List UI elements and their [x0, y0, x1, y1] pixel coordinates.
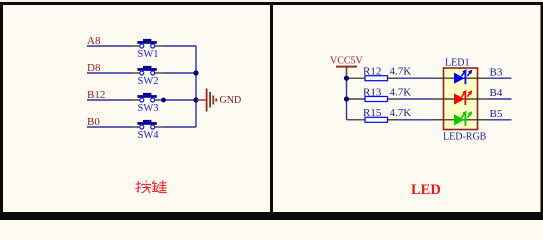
frame bottom border — [0, 212, 543, 220]
svg-text:B5: B5 — [490, 108, 503, 120]
svg-text:B0: B0 — [87, 116, 100, 128]
wire through LED row3 — [444, 119, 477, 121]
wire R12 to LED — [388, 77, 444, 79]
svg-text:4.7K: 4.7K — [390, 66, 412, 78]
svg-text:LED1: LED1 — [445, 57, 469, 68]
switch SW4 — [137, 120, 159, 141]
wire B0 to SW4 — [87, 126, 140, 128]
ground GND — [196, 89, 241, 112]
svg-text:A8: A8 — [87, 35, 101, 47]
svg-text:LED-RGB: LED-RGB — [443, 131, 487, 142]
panel divider — [270, 2, 273, 212]
junction bus row1 — [344, 76, 349, 81]
LED green element — [454, 111, 472, 126]
wire SW1 to bus — [155, 45, 196, 47]
wire R15 to LED — [388, 119, 444, 121]
wire vcc bus vertical — [346, 78, 348, 120]
resistor R13 — [347, 86, 411, 101]
LED blue element — [454, 69, 472, 84]
frame left border — [0, 2, 3, 220]
switch SW3 — [137, 93, 158, 114]
switch SW1 — [137, 39, 158, 60]
svg-text:SW1: SW1 — [138, 49, 159, 60]
wire through LED row1 — [444, 77, 477, 79]
svg-text:SW4: SW4 — [138, 130, 160, 141]
junction bus row3 — [193, 97, 198, 102]
svg-text:4.7K: 4.7K — [390, 86, 412, 98]
title right panel LED — [411, 182, 441, 198]
svg-text:B3: B3 — [490, 66, 503, 78]
svg-text:GND: GND — [220, 95, 242, 106]
svg-text:LED: LED — [411, 182, 441, 198]
power VCC5V — [330, 56, 364, 79]
node B3 — [490, 66, 503, 78]
svg-text:4.7K: 4.7K — [390, 107, 412, 119]
LED module LED1 body — [443, 57, 487, 142]
svg-text:B4: B4 — [490, 87, 503, 99]
wire SW3 to bus — [155, 99, 196, 101]
wire through LED row2 — [444, 98, 477, 100]
LED red element — [454, 90, 472, 105]
svg-text:VCC5V: VCC5V — [330, 56, 364, 67]
svg-text:SW2: SW2 — [138, 76, 159, 87]
wire SW2 to bus — [155, 72, 196, 74]
node B12 — [87, 89, 105, 101]
node B5 — [490, 108, 503, 120]
resistor R15 — [347, 107, 411, 122]
wire LED to B3 — [478, 77, 512, 79]
wire B12 to SW3 — [87, 99, 140, 101]
node B4 — [490, 87, 503, 99]
wire R13 to LED — [388, 98, 444, 100]
wire LED to B4 — [478, 98, 512, 100]
junction after SW3 — [161, 98, 166, 103]
wire SW4 to bus — [155, 126, 196, 128]
junction bus row2 — [344, 96, 349, 101]
node A8 — [87, 35, 101, 47]
resistor R12 — [347, 66, 411, 81]
title left panel: hanzi "an jian" — [135, 180, 166, 193]
svg-text:SW3: SW3 — [138, 103, 159, 114]
node D8 — [87, 62, 101, 74]
svg-text:D8: D8 — [87, 62, 101, 74]
node B0 — [87, 116, 100, 128]
switch SW2 — [137, 66, 158, 87]
frame right border — [541, 2, 543, 220]
wire D8 to SW2 — [87, 72, 140, 74]
svg-text:B12: B12 — [87, 89, 105, 101]
frame top border — [0, 2, 543, 5]
wire A8 to SW1 — [87, 45, 140, 47]
wire LED to B5 — [478, 119, 512, 121]
junction bus row2 — [193, 70, 198, 75]
wire bus vertical — [195, 46, 197, 127]
